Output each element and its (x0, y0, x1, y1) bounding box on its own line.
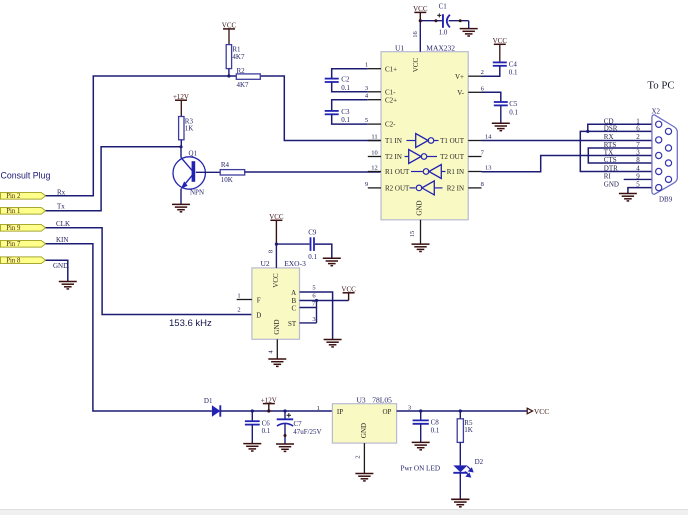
svg-text:X2: X2 (652, 108, 661, 116)
svg-text:U1: U1 (395, 43, 404, 52)
svg-text:MAX232: MAX232 (426, 43, 455, 52)
svg-text:Pwr ON LED: Pwr ON LED (401, 465, 441, 473)
svg-text:0.1: 0.1 (509, 69, 518, 77)
svg-text:Pin 7: Pin 7 (6, 241, 21, 248)
svg-text:C7: C7 (294, 420, 303, 428)
svg-text:12: 12 (371, 165, 378, 172)
svg-text:DSR: DSR (604, 125, 618, 133)
svg-text:2: 2 (481, 69, 484, 76)
svg-text:V+: V+ (455, 73, 464, 81)
svg-text:Q1: Q1 (189, 149, 198, 157)
svg-text:DTR: DTR (604, 165, 618, 173)
svg-text:U2: U2 (261, 259, 270, 268)
svg-text:0.1: 0.1 (431, 426, 440, 434)
svg-text:Pin 8: Pin 8 (6, 258, 21, 265)
svg-text:5: 5 (636, 181, 640, 189)
svg-text:D1: D1 (204, 397, 213, 405)
svg-text:153.6 kHz: 153.6 kHz (169, 318, 212, 329)
svg-text:16: 16 (412, 31, 419, 38)
svg-text:8: 8 (636, 156, 640, 164)
svg-text:F: F (257, 296, 261, 304)
svg-text:0.1: 0.1 (262, 427, 271, 435)
svg-text:Tx: Tx (57, 203, 65, 211)
svg-text:47uF/25V: 47uF/25V (293, 428, 321, 436)
svg-text:C1-: C1- (385, 88, 396, 96)
svg-text:T1 OUT: T1 OUT (440, 137, 465, 145)
svg-text:RX: RX (604, 133, 614, 141)
svg-text:R2 IN: R2 IN (447, 185, 464, 193)
svg-text:15: 15 (409, 231, 416, 238)
svg-text:KIN: KIN (56, 236, 68, 244)
svg-text:C3: C3 (341, 108, 350, 116)
svg-text:4K7: 4K7 (237, 81, 250, 89)
svg-text:T2 IN: T2 IN (385, 153, 402, 161)
svg-text:R1 IN: R1 IN (447, 168, 464, 176)
svg-text:R1 OUT: R1 OUT (385, 168, 410, 176)
svg-text:VCC: VCC (534, 407, 549, 416)
svg-text:10K: 10K (221, 176, 233, 184)
svg-text:1.0: 1.0 (439, 28, 448, 36)
svg-text:0.1: 0.1 (308, 253, 317, 261)
svg-text:To PC: To PC (647, 80, 674, 92)
svg-text:6: 6 (636, 125, 640, 133)
svg-text:1K: 1K (185, 124, 194, 132)
svg-text:2: 2 (355, 455, 362, 458)
svg-text:GND: GND (360, 423, 368, 438)
svg-text:C: C (292, 305, 297, 313)
svg-text:U3: U3 (357, 395, 366, 404)
svg-text:C1+: C1+ (385, 65, 397, 73)
svg-text:78L05: 78L05 (372, 395, 392, 404)
svg-text:5: 5 (365, 117, 368, 124)
svg-text:9: 9 (636, 173, 640, 181)
svg-text:GND: GND (273, 319, 281, 334)
svg-text:Pin 2: Pin 2 (6, 193, 21, 200)
svg-text:1: 1 (317, 405, 320, 412)
svg-text:C4: C4 (509, 61, 518, 69)
svg-text:GND: GND (416, 200, 424, 215)
svg-text:5: 5 (312, 285, 315, 292)
svg-text:4K7: 4K7 (232, 53, 245, 61)
svg-text:EXO-3: EXO-3 (284, 259, 306, 268)
svg-text:8: 8 (481, 181, 484, 188)
svg-text:1: 1 (365, 62, 368, 69)
svg-text:GND: GND (604, 181, 619, 189)
svg-text:V-: V- (457, 89, 464, 97)
svg-text:8: 8 (267, 250, 274, 253)
svg-text:GND: GND (53, 262, 68, 270)
svg-text:3: 3 (365, 85, 368, 92)
svg-text:C2-: C2- (385, 121, 396, 129)
svg-text:Consult Plug: Consult Plug (1, 171, 51, 181)
svg-text:2: 2 (237, 307, 240, 314)
svg-text:Pin 9: Pin 9 (6, 225, 21, 232)
svg-text:C9: C9 (308, 229, 317, 237)
svg-text:R2: R2 (237, 67, 246, 75)
svg-text:R4: R4 (221, 161, 230, 169)
svg-text:NPN: NPN (190, 188, 204, 196)
svg-text:14: 14 (485, 134, 492, 141)
svg-text:9: 9 (365, 181, 368, 188)
svg-text:C2+: C2+ (385, 96, 397, 104)
svg-text:OP: OP (383, 408, 392, 416)
svg-text:0.1: 0.1 (509, 108, 518, 116)
svg-text:10: 10 (371, 150, 378, 157)
svg-text:ST: ST (288, 320, 297, 328)
svg-text:3: 3 (408, 405, 411, 412)
svg-text:4: 4 (636, 165, 640, 173)
svg-text:T2 OUT: T2 OUT (440, 153, 465, 161)
svg-text:DB9: DB9 (659, 196, 673, 204)
svg-text:3: 3 (312, 316, 315, 323)
svg-text:D: D (256, 311, 261, 319)
svg-text:VCC: VCC (272, 273, 280, 288)
svg-text:C5: C5 (509, 100, 518, 108)
svg-text:Pin 1: Pin 1 (6, 208, 20, 215)
svg-text:0.1: 0.1 (341, 116, 350, 124)
svg-text:C2: C2 (341, 75, 350, 83)
svg-text:1: 1 (237, 293, 240, 300)
svg-text:R2 OUT: R2 OUT (385, 185, 410, 193)
svg-text:1K: 1K (464, 426, 473, 434)
svg-text:C8: C8 (431, 418, 440, 426)
svg-text:VCC: VCC (412, 57, 420, 72)
svg-text:D2: D2 (475, 458, 484, 466)
svg-text:2: 2 (636, 133, 640, 141)
svg-text:11: 11 (371, 134, 377, 141)
svg-text:T1 IN: T1 IN (385, 137, 402, 145)
svg-text:CTS: CTS (604, 156, 617, 164)
svg-text:CLK: CLK (56, 220, 70, 228)
svg-text:IP: IP (337, 408, 343, 416)
svg-text:A: A (291, 289, 296, 297)
svg-text:RI: RI (604, 173, 612, 181)
svg-text:C1: C1 (439, 3, 448, 11)
svg-text:13: 13 (485, 165, 492, 172)
svg-text:0.1: 0.1 (341, 84, 350, 92)
